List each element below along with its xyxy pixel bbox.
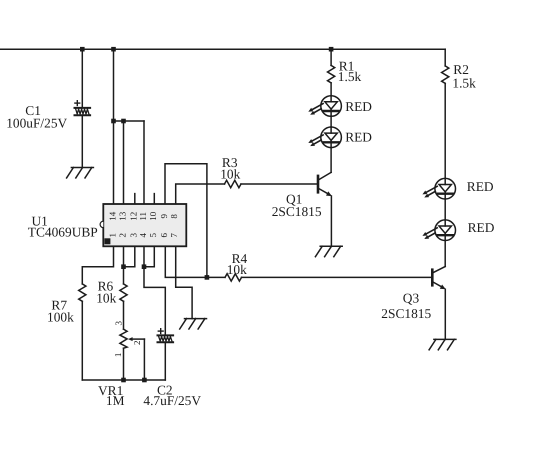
wire R3 to Q1 base: [241, 183, 318, 185]
wire pin5 tie: [144, 246, 154, 266]
junction VR1 term1: [121, 378, 126, 383]
wire pin14 riser: [113, 49, 115, 204]
wire bottom rail: [82, 379, 165, 381]
wire C2 to rail: [164, 343, 166, 380]
label C2 value: [143, 382, 201, 408]
wire pin3 tie: [124, 246, 135, 266]
label C1: [6, 103, 67, 130]
wire pin7 to ground: [176, 246, 192, 318]
wire pins 14-13-11 tie: [114, 120, 145, 122]
junction pin13 wire: [121, 119, 126, 124]
svg-text:13: 13: [117, 211, 127, 221]
ground: [315, 246, 342, 256]
wire C1 top lead: [81, 49, 83, 107]
junction pin14 wire: [111, 119, 116, 124]
svg-text:TC4069UBP: TC4069UBP: [28, 225, 98, 240]
label R4 value: [227, 251, 248, 277]
pin label VR1-1: [113, 353, 123, 358]
svg-text:10k: 10k: [96, 291, 116, 306]
svg-text:Q3: Q3: [403, 291, 420, 306]
label Q3: [381, 291, 431, 321]
wire VR1 to rail: [123, 348, 125, 380]
wire LED1 to LED2: [330, 116, 332, 127]
svg-text:2SC1815: 2SC1815: [272, 204, 322, 219]
pin label VR1-2: [132, 340, 142, 345]
capacitor C1: [75, 101, 91, 116]
label R1 value: [338, 58, 362, 84]
wire C1 to ground: [81, 116, 83, 167]
resistor R2: [442, 66, 449, 84]
wire pin9 to node R4: [165, 164, 207, 278]
svg-text:8: 8: [169, 214, 179, 219]
svg-text:1: 1: [107, 233, 117, 238]
label R7 value: [47, 297, 74, 324]
svg-text:3: 3: [114, 320, 124, 325]
LED D4: [422, 220, 455, 241]
svg-text:6: 6: [159, 233, 169, 238]
label R2 value: [452, 62, 476, 91]
svg-text:10k: 10k: [220, 166, 240, 181]
junction VR1 wiper: [142, 378, 147, 383]
wire R1 to LED1: [330, 83, 332, 96]
wire pin2 riser: [123, 246, 125, 284]
LED D1: [308, 96, 341, 117]
svg-text:RED: RED: [468, 220, 495, 235]
label RED D1: [345, 99, 372, 114]
svg-text:7: 7: [169, 233, 179, 238]
svg-text:2SC1815: 2SC1815: [381, 306, 431, 321]
LED D3: [422, 178, 455, 199]
junction pins 2-3: [121, 264, 126, 269]
svg-text:2: 2: [117, 233, 127, 238]
wire R1 top lead: [330, 49, 332, 65]
label U1: [28, 213, 98, 239]
transistor Q3: [432, 267, 445, 290]
svg-text:4: 4: [138, 233, 148, 238]
svg-text:100k: 100k: [47, 310, 74, 325]
junction node R4: [205, 275, 210, 280]
op-amp U1 body: [100, 204, 186, 246]
wire pin6 to R4: [165, 246, 225, 277]
VR1 wiper arrow: [128, 337, 144, 341]
pin label VR1-3: [114, 320, 124, 325]
wire wiper to rail: [143, 339, 145, 380]
wire Q1 emitter: [330, 196, 332, 246]
label RED D4: [468, 220, 495, 235]
label VR1 value: [98, 383, 125, 408]
junction R1/rail: [329, 47, 334, 52]
svg-text:1.5k: 1.5k: [452, 76, 476, 91]
capacitor C2: [158, 329, 174, 343]
resistor R6: [120, 284, 127, 301]
svg-text:RED: RED: [345, 130, 372, 145]
pin numbers top row 14-8: [107, 211, 179, 221]
label RED D2: [345, 130, 372, 145]
wire R7 to rail: [81, 301, 83, 380]
ground: [67, 168, 94, 178]
label R6 value: [96, 278, 116, 305]
label R3 value: [220, 155, 240, 181]
wire pin12 stub: [134, 194, 136, 204]
label RED D3: [467, 179, 494, 194]
label Q1: [272, 191, 322, 219]
transistor Q1: [318, 172, 332, 196]
potentiometer VR1: [120, 329, 127, 348]
resistor R1: [328, 65, 335, 83]
svg-text:2: 2: [132, 340, 142, 345]
svg-text:14: 14: [107, 211, 117, 221]
wire pin4 to C2: [144, 246, 165, 334]
svg-text:RED: RED: [467, 179, 494, 194]
wire R2 to LED3: [444, 83, 446, 178]
junction C1/rail: [80, 47, 85, 52]
ground: [180, 319, 207, 329]
wire Q3 emitter: [444, 289, 446, 339]
wire pin10 stub: [153, 194, 155, 204]
wire pin8 to R3: [176, 184, 225, 204]
resistor R3: [225, 180, 242, 187]
wire pin1 to R7: [82, 246, 113, 284]
wire R6 to VR1: [123, 301, 125, 329]
svg-text:10k: 10k: [227, 262, 247, 277]
wire LED4 to Q3 collector: [444, 241, 446, 267]
svg-text:9: 9: [159, 214, 169, 219]
svg-text:11: 11: [138, 212, 148, 221]
svg-text:1M: 1M: [106, 393, 125, 408]
ground: [429, 339, 456, 349]
svg-text:1.5k: 1.5k: [338, 69, 362, 84]
pin numbers bottom row 1-7: [107, 233, 179, 238]
wire pin13 riser: [123, 121, 125, 204]
svg-text:4.7uF/25V: 4.7uF/25V: [143, 393, 201, 408]
svg-text:100uF/25V: 100uF/25V: [6, 116, 67, 131]
svg-text:10: 10: [148, 211, 158, 221]
wire pin11 riser: [143, 121, 145, 204]
svg-text:5: 5: [148, 233, 158, 238]
wire R4 to Q3 base: [242, 276, 433, 278]
junction pin14/rail: [111, 47, 116, 52]
wire LED2 to Q1 collector: [330, 148, 332, 173]
svg-text:1: 1: [113, 353, 123, 358]
wire LED3 to LED4: [444, 199, 446, 220]
resistor R7: [79, 284, 86, 301]
wire VCC rail: [0, 48, 445, 50]
junction pins 4-5: [142, 264, 147, 269]
svg-text:RED: RED: [345, 99, 372, 114]
resistor R4: [225, 274, 242, 281]
LED D2: [308, 127, 341, 148]
wire rail to R2: [444, 49, 446, 66]
